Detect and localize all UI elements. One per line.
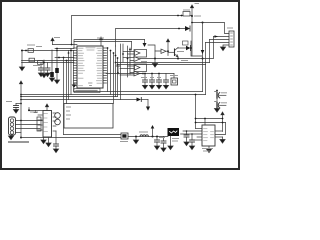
arrow down into amp block: [144, 40, 146, 44]
capacitor C8: [165, 74, 167, 81]
node dot: [167, 50, 169, 52]
U1 right pins: [103, 48, 107, 83]
U3 pins left: [181, 129, 223, 141]
wire x117: [117, 58, 119, 97]
transistor Q2: [174, 49, 176, 56]
wire y60: [22, 60, 75, 62]
node dot: [21, 50, 23, 52]
ground left input: [21, 51, 23, 68]
resistor R2: [29, 58, 35, 62]
node dot: [25, 50, 27, 52]
border frame: [1, 1, 239, 169]
component C3: [51, 50, 53, 78]
buffer A5: [161, 49, 166, 54]
arrow marker on x202: [201, 50, 205, 54]
diode D1: [185, 26, 190, 31]
ground U3 right pin: [222, 137, 224, 140]
power VCC top right: [190, 5, 193, 8]
U1 pin name text: [79, 48, 102, 86]
vertical left bus: [70, 49, 72, 95]
resistor R3: [38, 61, 44, 65]
wire x110: [110, 51, 112, 95]
node dot: [20, 103, 22, 105]
wire bus y99.5: [21, 99, 137, 101]
component C3b: [56, 50, 58, 80]
inductor L1: [140, 135, 148, 137]
node dots bus left: [20, 94, 22, 96]
capacitor C5: [144, 74, 146, 81]
wire x113: [113, 53, 115, 104]
wire x107: [107, 48, 109, 92]
wire buffer out: [166, 50, 168, 52]
wire bus vertical x202: [202, 23, 204, 92]
node dot: [191, 15, 193, 17]
wire y62.5: [22, 62, 75, 64]
capacitor CP2 polarized: [216, 103, 218, 109]
wire y137 long: [21, 137, 121, 139]
U2 inner text: [44, 114, 48, 132]
wire bus vertical x213: [213, 37, 215, 59]
power VCC rail: [19, 81, 22, 84]
capacitor CE2: [55, 119, 61, 125]
wire x44: [43, 60, 45, 74]
battery logo box: [168, 128, 180, 136]
node dot: [20, 137, 22, 139]
label R2: [36, 46, 42, 48]
node dot: [154, 58, 156, 60]
ground logo: [170, 136, 172, 146]
label L1: [139, 131, 148, 133]
net labels in loop rect: [66, 106, 71, 108]
node dot: [58, 57, 60, 59]
node dot: [202, 58, 204, 60]
wire caps chain: [216, 91, 218, 109]
wire return y64.5: [118, 64, 206, 66]
capacitor C10: [156, 136, 158, 138]
capacitor C2: [47, 63, 49, 69]
resistor R5: [37, 117, 41, 131]
ground connector: [220, 47, 225, 51]
wire x74 drop: [73, 41, 75, 49]
U2 pins: [38, 113, 56, 131]
power VCC U3: [221, 112, 224, 115]
node dot: [190, 47, 192, 49]
wire y42.5: [74, 41, 132, 43]
label R1: [27, 44, 35, 46]
wire x120: [120, 44, 122, 100]
wire long y58.5: [140, 58, 213, 60]
label VCC192: [195, 3, 200, 5]
power VCC U2: [45, 104, 48, 107]
label U2 right: [30, 111, 38, 113]
diode D2: [178, 47, 186, 49]
label Q2: [181, 60, 188, 62]
node dot: [178, 28, 180, 30]
arrow to gnd from y99.5: [147, 100, 149, 107]
opamp feed lines: [122, 44, 124, 62]
node dot: [177, 15, 179, 17]
capacitor CP1 polarized: [216, 93, 218, 99]
node dot: [56, 50, 58, 52]
label J2: [227, 27, 233, 29]
power VCC bottom: [151, 125, 155, 129]
wire bus y94.3: [21, 94, 206, 96]
label D2: [177, 51, 184, 53]
power VCC left: [51, 38, 54, 41]
ground B1: [135, 137, 137, 141]
capacitor C9: [55, 131, 57, 144]
wire y136.5: [128, 136, 168, 138]
ground caps: [214, 109, 219, 113]
main IC U1: [77, 46, 103, 88]
label R20: [183, 9, 190, 11]
wire bus vertical x206: [205, 43, 207, 65]
wire gnd pin connector: [223, 45, 229, 47]
op-amp A4: [134, 71, 140, 76]
wire x205 top pin: [204, 119, 206, 126]
connector J2: [229, 31, 234, 47]
label VCC52: [54, 37, 60, 39]
wire y110.5: [29, 110, 43, 112]
wire y40.5: [74, 39, 145, 41]
label S1 S2: [221, 92, 227, 94]
op-amp A1 with feedback loop: [134, 50, 147, 58]
wire y42 to connector: [206, 42, 230, 44]
capacitor CE1: [55, 113, 61, 119]
wire top loop 1: [72, 16, 184, 45]
capacitor C12: [186, 131, 188, 135]
capacitor C1: [40, 63, 42, 69]
node dot: [20, 120, 22, 122]
op-amp A3 with feedback loop: [134, 64, 147, 72]
label U3: [202, 148, 213, 150]
wire y22: [192, 23, 229, 34]
U3 inner text: [204, 129, 214, 141]
wire y36 to connector: [214, 36, 230, 38]
IC U3: [202, 125, 215, 146]
wire y118: [196, 118, 223, 120]
node dot: [71, 44, 73, 46]
ground connector P1: [10, 135, 12, 136]
label node: [194, 15, 201, 17]
resistor R21: [183, 41, 189, 45]
resistor R1: [28, 49, 34, 53]
label B1: [120, 141, 128, 143]
op-amp A2: [134, 57, 140, 62]
wire return y62: [116, 62, 210, 64]
label battery: [172, 138, 179, 140]
wire y44: [53, 44, 78, 46]
wire A4 out: [140, 73, 143, 75]
label R3: [33, 65, 40, 67]
connector P1: [9, 117, 16, 135]
ground U2 b: [48, 137, 50, 143]
U1 inner bottom marks: [89, 82, 93, 84]
wire y74: [106, 73, 174, 75]
wire x225 corner: [215, 123, 226, 135]
diode D3 on y99.5: [137, 98, 142, 102]
crystal Y1: [171, 78, 178, 85]
wire rect loop: [64, 104, 113, 129]
wire vertical X1: [191, 15, 193, 56]
U1 left pins: [74, 48, 78, 86]
text smudges (labels): [6, 4, 233, 152]
connector pin wires: [16, 120, 43, 122]
wire y50: [22, 50, 75, 52]
label P1: [6, 101, 12, 103]
wire bus y91.3: [74, 91, 203, 93]
ferrite box B1: [121, 133, 128, 139]
label C10: [159, 137, 165, 139]
ground U2 a: [43, 137, 45, 140]
regulator U2: [43, 111, 52, 138]
wire y57: [55, 57, 74, 59]
ground x155: [152, 64, 157, 68]
title text bottom left: [8, 141, 29, 143]
wire into buffer: [148, 45, 161, 51]
capacitor C11: [163, 137, 165, 142]
wire x155 down: [154, 51, 156, 64]
wire diode to x191: [191, 41, 202, 56]
capacitor C13: [191, 134, 193, 140]
U1 label box: [74, 89, 100, 93]
label caps row: [143, 77, 147, 79]
capacitor C7: [158, 74, 160, 81]
wire y134.5: [64, 134, 122, 136]
capacitor C6: [151, 74, 153, 81]
node dot: [202, 22, 204, 24]
wire top loop 2: [116, 29, 186, 47]
wire bus vertical x209: [209, 40, 211, 63]
node dot: [152, 136, 154, 138]
resistor R20: [183, 12, 190, 17]
wire y39 to connector: [210, 39, 230, 41]
wire bus y96.9: [21, 96, 118, 98]
node dot: [135, 136, 137, 138]
ground pin U1 bottom-left: [74, 83, 77, 85]
capacitor C4 riser: [117, 66, 119, 74]
node dot: [191, 22, 193, 24]
power VCC above U1: [99, 37, 102, 40]
power VCC Q2: [166, 39, 169, 42]
wire x131 drop: [131, 42, 133, 51]
wire U3 feed: [195, 95, 197, 129]
capacitor C20 to ground: [16, 103, 21, 105]
wire y122: [196, 122, 226, 124]
ground U3: [208, 146, 210, 149]
labels near opamps: [141, 61, 147, 63]
wire x115b: [115, 46, 117, 97]
node dot: [177, 58, 179, 60]
